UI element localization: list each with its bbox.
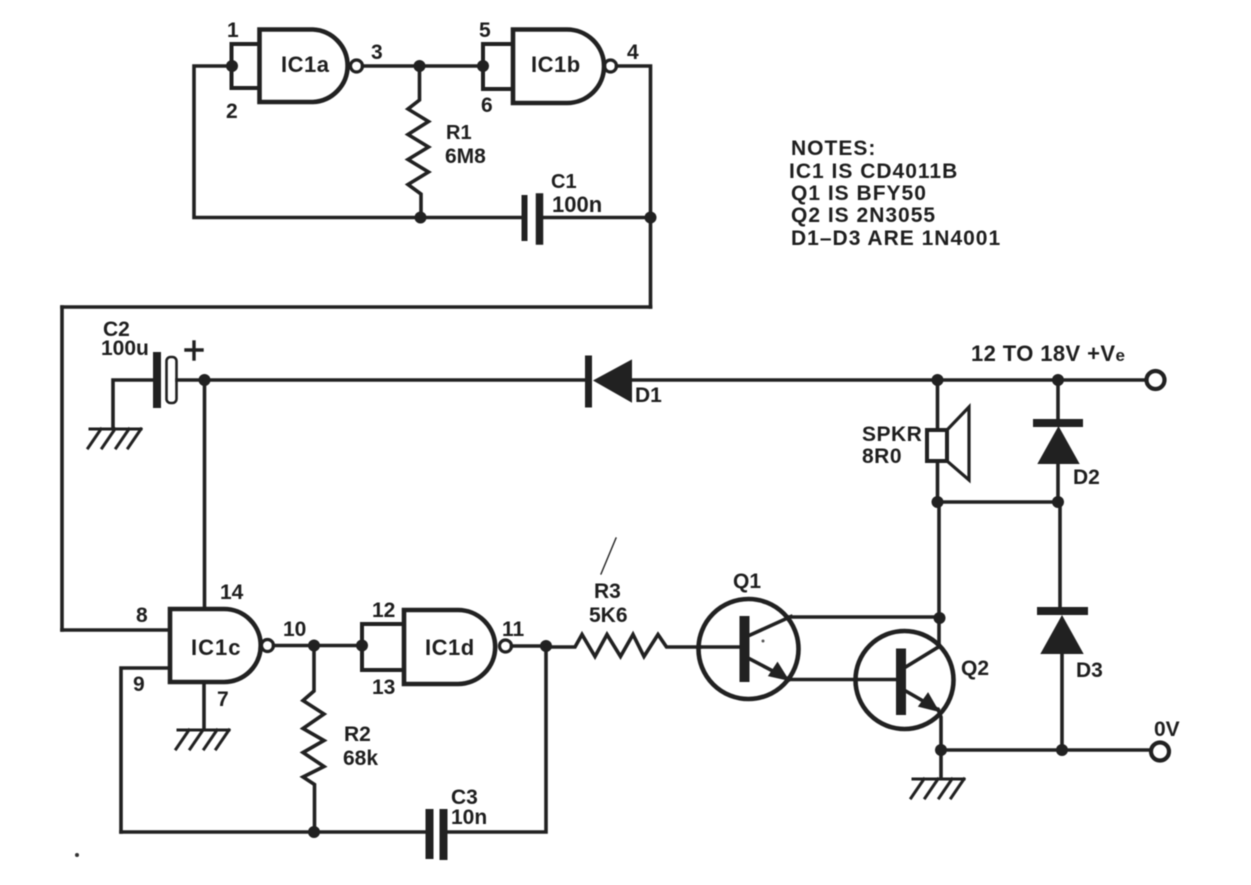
junction node 10 / R2 <box>308 640 320 652</box>
resistor R2 <box>303 646 324 833</box>
wire node 11 to corner <box>512 644 547 648</box>
svg-text:NOTES:: NOTES: <box>791 137 876 160</box>
svg-text:Q1: Q1 <box>733 570 761 593</box>
wire 0V bottom row <box>941 748 1151 752</box>
wire SPKR net vertical <box>936 380 940 430</box>
svg-text:5K6: 5K6 <box>589 604 628 627</box>
svg-text:IC1c: IC1c <box>191 635 241 660</box>
wire pin 14 vertical from supply node <box>203 380 207 609</box>
wire left vertical down to pin 8 <box>60 307 64 630</box>
terminal 0V <box>1151 743 1169 761</box>
wire node 3 (IC1a output to IC1b input) <box>363 64 483 68</box>
ground under pin 7 <box>176 730 229 749</box>
transistor Q2 <box>856 631 954 750</box>
junction R2 bottom <box>308 826 320 838</box>
junction supply/D2 <box>1052 374 1064 386</box>
pin 7 stub <box>202 682 206 727</box>
wire SPKR bottom <box>936 461 940 502</box>
speaker SPKR <box>927 407 969 480</box>
wire node 10 (IC1c output to IC1d input) <box>274 644 363 648</box>
svg-text:R3: R3 <box>594 580 621 603</box>
junction D2 bottom <box>1052 496 1064 508</box>
input bracket pins 1-2 of IC1a <box>232 44 260 88</box>
wire C2 left to ground stub <box>113 380 153 426</box>
junction SPKR bottom <box>932 496 944 508</box>
junction node 5-6 <box>477 60 489 72</box>
wire C2 to supply rail junction <box>177 378 205 382</box>
NOTES text block <box>789 137 1001 250</box>
svg-text:IC1d: IC1d <box>425 635 475 660</box>
ground under C2 <box>88 429 141 448</box>
wire node 4 (IC1b output down to C2 row) <box>617 66 651 307</box>
svg-text:IC1a: IC1a <box>281 52 330 77</box>
svg-text:10n: 10n <box>451 806 487 829</box>
svg-text:D1: D1 <box>635 384 662 407</box>
resistor R3 <box>546 635 700 657</box>
svg-text:D2: D2 <box>1073 466 1100 489</box>
svg-text:12 TO 18V +Ve: 12 TO 18V +Ve <box>971 341 1125 366</box>
scan speck <box>762 640 765 643</box>
svg-text:SPKR: SPKR <box>862 423 922 446</box>
junction D3 bottom <box>1056 744 1068 756</box>
wire C3 bottom row <box>121 830 424 834</box>
svg-text:14: 14 <box>220 581 244 604</box>
svg-text:R2: R2 <box>344 723 371 746</box>
transistor Q1 <box>699 599 799 699</box>
svg-text:R1: R1 <box>446 122 472 144</box>
junction Q2 emitter <box>935 744 947 756</box>
wire pin 9 down to C3 row <box>121 668 170 832</box>
wire top of loop row (node4 across to left) <box>62 305 651 309</box>
gate IC1c <box>170 609 274 682</box>
svg-text:6M8: 6M8 <box>445 145 486 168</box>
junction C2 node <box>199 374 211 386</box>
svg-text:Q2: Q2 <box>961 657 989 680</box>
diode D3 <box>1041 502 1084 750</box>
svg-text:12: 12 <box>372 599 395 622</box>
svg-text:4: 4 <box>627 41 639 64</box>
svg-text:D1–D3 ARE 1N4001: D1–D3 ARE 1N4001 <box>791 227 1001 250</box>
diode D1 <box>589 359 632 404</box>
wire C1 right to junction <box>544 216 651 220</box>
junction node 3 <box>414 60 426 72</box>
input bracket pins 12-13 of IC1d <box>362 624 404 670</box>
junction node 10 / bracket <box>356 640 368 652</box>
capacitor C3 <box>430 813 444 856</box>
svg-text:9: 9 <box>133 673 145 696</box>
svg-text:100n: 100n <box>552 192 602 217</box>
gate IC1a <box>260 30 363 103</box>
plus sign of C2 <box>186 342 202 359</box>
junction R1 bottom <box>415 212 427 224</box>
wire feedback loop left (node1/2 to bottom row) <box>194 66 521 218</box>
svg-text:0V: 0V <box>1154 718 1180 741</box>
svg-text:IC1b: IC1b <box>531 52 581 77</box>
svg-text:5: 5 <box>479 19 491 42</box>
svg-text:68k: 68k <box>343 747 378 770</box>
input bracket pins 5-6 of IC1b <box>483 44 513 89</box>
diode D2 <box>1037 380 1079 502</box>
wire supply rail left of D1 <box>205 378 586 382</box>
svg-text:100u: 100u <box>101 337 149 360</box>
svg-text:D3: D3 <box>1076 659 1103 682</box>
leader line near R3 <box>601 538 616 574</box>
wire SPKR junction down to Q1 collector and Q2 collector <box>937 502 941 647</box>
junction Q1 collector <box>934 612 946 624</box>
wire cross link SPKR/D2 <box>938 500 1059 504</box>
svg-text:6: 6 <box>481 94 493 117</box>
capacitor C2 (electrolytic) <box>157 356 177 404</box>
svg-text:13: 13 <box>372 676 395 699</box>
wire Q1 collector to SPKR net <box>789 615 940 619</box>
capacitor C1 <box>525 197 540 241</box>
scan speck <box>75 853 79 857</box>
wire C3 right and up to node 11 <box>448 646 546 832</box>
svg-text:3: 3 <box>371 41 383 64</box>
junction supply/SPKR <box>932 374 944 386</box>
resistor R1 <box>408 66 429 218</box>
terminal +Ve <box>1147 371 1165 389</box>
svg-text:10: 10 <box>283 618 306 641</box>
svg-text:Q1 IS BFY50: Q1 IS BFY50 <box>791 182 927 205</box>
svg-text:1: 1 <box>227 19 239 42</box>
wire Q1 emitter to Q2 base <box>787 678 897 682</box>
svg-text:C1: C1 <box>551 171 577 193</box>
gate IC1d <box>404 610 512 684</box>
svg-text:2: 2 <box>226 100 238 123</box>
junction C1 right <box>645 212 657 224</box>
svg-text:IC1 IS CD4011B: IC1 IS CD4011B <box>789 160 958 183</box>
gate IC1b <box>513 30 617 104</box>
wire Q2 emitter ground stub <box>939 750 943 777</box>
ground under Q2 <box>911 779 964 798</box>
svg-text:8: 8 <box>136 604 148 627</box>
junction node 11 <box>540 640 552 652</box>
wire pin 8 into IC1c <box>62 628 170 632</box>
svg-text:8R0: 8R0 <box>862 445 902 468</box>
junction node 1-2 <box>226 60 238 72</box>
wire supply rail right of D1 <box>631 378 1146 382</box>
svg-text:Q2 IS 2N3055: Q2 IS 2N3055 <box>791 204 936 227</box>
svg-text:11: 11 <box>502 618 525 641</box>
svg-text:7: 7 <box>217 688 229 711</box>
